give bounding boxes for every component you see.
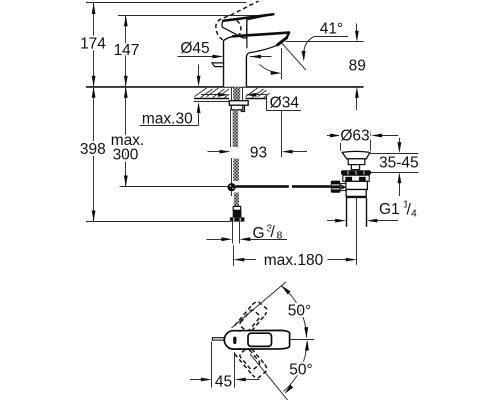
svg-text:89: 89 <box>349 57 366 74</box>
svg-text:Ø45: Ø45 <box>180 40 209 57</box>
svg-text:93: 93 <box>250 144 267 161</box>
svg-text:398: 398 <box>80 141 106 158</box>
svg-text:Ø34: Ø34 <box>270 94 300 111</box>
svg-text:50°: 50° <box>288 302 311 319</box>
svg-text:50°: 50° <box>289 361 312 378</box>
svg-text:max.180: max.180 <box>264 252 324 269</box>
svg-text:4: 4 <box>411 208 417 220</box>
svg-text:300: 300 <box>113 147 139 164</box>
svg-text:35-45: 35-45 <box>379 155 419 172</box>
svg-text:Ø63: Ø63 <box>340 128 369 145</box>
svg-text:174: 174 <box>80 36 106 53</box>
svg-text:G1: G1 <box>379 201 400 218</box>
svg-text:41°: 41° <box>320 21 343 38</box>
svg-text:147: 147 <box>114 42 140 59</box>
svg-text:45: 45 <box>215 373 232 390</box>
svg-text:/: / <box>271 224 276 241</box>
